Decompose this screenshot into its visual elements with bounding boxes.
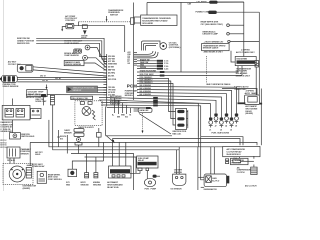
wire code labels [40,76,61,83]
svg-text:SENSOR: SENSOR [21,153,30,155]
alternator field box [226,158,249,164]
dashed indicator wire [206,56,208,83]
wire injector feed 3 [137,94,221,118]
svg-text:S12: S12 [60,138,63,140]
svg-text:(OPTIONAL): (OPTIONAL) [169,46,181,49]
wire F1 to bus [218,1,244,3]
svg-text:CKT A-14: CKT A-14 [7,159,15,162]
svg-text:GROUND: GROUND [93,184,102,186]
PCM connector C2 column [133,3,135,101]
PCM module label [125,90,138,98]
C2 connector block rows [137,58,168,62]
TCM box [141,15,177,26]
TPS stack label [64,130,72,134]
IAT sensor label [64,52,79,57]
ASD dark bar box [109,166,132,178]
svg-text:CKT BRKR: CKT BRKR [197,2,208,4]
svg-text:(RENIX): (RENIX) [245,113,253,115]
C1 pin stubs [103,57,106,95]
mid bus wire [106,135,173,137]
CMP label [21,148,32,156]
ignition module box [37,171,46,183]
wire ECT to PCM [90,48,107,65]
IAC coil zigzag [92,110,96,120]
O2 sensor label [174,170,183,174]
A/C clutch label [237,166,251,174]
svg-text:GROUND: GROUND [81,184,90,186]
fuel pump relay box [137,156,158,171]
svg-text:NOISE CAP: NOISE CAP [35,100,47,103]
IAC motor [82,107,91,116]
svg-text:CKT 57: CKT 57 [40,76,46,78]
CMP wires into distributor [10,158,14,164]
svg-text:SENSE: SENSE [140,67,147,69]
distributor [9,166,25,182]
injector 3 [220,118,224,132]
wire C2 row to kickdown [137,66,238,73]
coil rail box [176,108,188,129]
relay note top [27,163,46,168]
4speed note [236,49,255,53]
svg-text:SPD CTRL VENT: SPD CTRL VENT [140,74,155,76]
svg-text:KICKDOWN SWITCH AND: KICKDOWN SWITCH AND [142,20,168,23]
long bus 1 [113,139,241,146]
svg-text:RAIL 4.0L: RAIL 4.0L [172,133,182,136]
stub labels [112,115,132,119]
svg-text:INJ 6 DRIVER: INJ 6 DRIVER [140,85,152,87]
svg-text:CLUTCH: CLUTCH [237,172,245,174]
wire C2 row to relay 2 [137,66,242,77]
wire TCM to relay [231,51,235,62]
generator bottom wire [201,186,204,188]
svg-text:A/C CLUTCH: A/C CLUTCH [245,185,257,188]
splice tick [57,130,67,147]
svg-text:GND: GND [66,184,71,186]
wire injector feed 1 [107,98,211,117]
svg-text:PARK SW: PARK SW [140,61,148,64]
svg-text:KICKDOWN: KICKDOWN [237,58,248,60]
svg-text:CONTROL: CONTROL [65,20,76,22]
wire PCM row to left bus 1 [107,100,199,147]
svg-text:SENSOR: SENSOR [64,132,72,134]
wire injector feed 6 [137,85,237,114]
wire coolant to PCM [47,94,106,96]
C2 pin ticks [134,53,137,66]
wire fp relay left [130,171,140,174]
svg-text:SHIFT INDICATOR CABLE: SHIFT INDICATOR CABLE [206,83,231,86]
svg-text:J4: J4 [225,125,227,127]
svg-text:J5: J5 [230,129,232,131]
svg-text:A/C REQ: A/C REQ [108,72,116,75]
svg-text:J1: J1 [209,129,211,131]
svg-text:G3: G3 [128,63,130,65]
svg-text:AUTO TRANS ONLY: AUTO TRANS ONLY [236,51,255,54]
wire bus down left 2 [53,105,180,150]
generator feed wires [211,147,215,174]
svg-text:RELAY 91-95: RELAY 91-95 [107,186,118,189]
svg-text:SPEED SENSOR: SPEED SENSOR [3,86,19,88]
WOT switch connector [17,64,33,72]
bus vertical B2 [258,12,260,95]
IAC pins [80,102,92,105]
dark junction blob [41,94,46,105]
svg-text:FUEL INJECTORS: FUEL INJECTORS [212,133,230,135]
svg-text:CKT 18: CKT 18 [0,147,6,149]
aux connector box [31,109,42,119]
svg-text:MAP SIG: MAP SIG [108,69,116,72]
svg-text:INJ 4 DRIVER: INJ 4 DRIVER [140,91,152,93]
enclosure top wire [222,89,257,96]
svg-text:TRANSMISSION OVERDRIVE: TRANSMISSION OVERDRIVE [142,17,171,20]
wires into O2 [177,147,180,174]
CMP sensor [7,147,20,158]
loop component label [169,42,181,49]
fuel pump [144,171,156,191]
transmission switch label [108,9,124,16]
left module label [26,95,45,99]
wires into ASD bar [113,139,126,167]
wire IAT to PCM [87,58,106,67]
ground junction box [68,169,77,176]
splice component S1 [74,49,82,53]
bottom bus 4 [85,157,137,173]
injector 6 [235,114,239,128]
wire row2 to bus [229,33,244,35]
svg-text:PRESS SENSOR: PRESS SENSOR [65,64,81,66]
svg-text:PCM: PCM [127,83,137,88]
top bus wire [147,1,244,3]
svg-text:FUEL PUMP: FUEL PUMP [110,103,121,105]
label arrow [106,16,108,22]
svg-text:SPD CTRL: SPD CTRL [108,79,116,81]
fuse F1 [197,1,218,4]
kickdown relay [235,57,258,68]
stub verticals with labels [115,98,131,115]
TCM feed vertical [146,3,148,16]
wire injector feed 4 [137,91,227,114]
harness connector [0,75,17,82]
wire C1 bottom with arrow [106,107,115,144]
svg-text:DOWN RELAY: DOWN RELAY [32,165,45,168]
inline splice dark [153,175,160,178]
wire label to diag box [12,99,14,106]
wire ground riser [72,161,103,169]
ground G1 [81,154,90,187]
dashed wire with arrow [142,113,144,133]
ASD bar label [107,181,123,189]
wire bus down left 1 [49,120,223,147]
A/C clutch relay K1 [66,23,74,28]
distributor label [23,186,37,190]
wire coil feed 3 [137,82,176,125]
A/C clutch relay label [65,15,78,22]
IAT sensor [83,55,88,60]
RWAL label [48,173,63,181]
riser 2 to generator [201,137,204,180]
svg-text:CKT 63: CKT 63 [42,80,48,82]
ECT sensor label [64,40,83,45]
scan edge artifact left [3,0,5,191]
svg-text:CONT MODULE: CONT MODULE [48,179,63,181]
wire to distributor [29,142,31,166]
wire coil feed 2 [137,79,176,118]
wires TPS to PCM [98,88,107,93]
right bus vertical B3 [260,89,262,146]
wire box to connector [12,120,14,133]
wire relay to ASD [255,67,257,95]
inline connector with arrow [81,25,88,40]
wire A/C relay to dashed run [74,26,125,52]
PCM aux box [134,108,152,112]
svg-text:SWITCH FEED: SWITCH FEED [21,136,35,138]
bottom bus 3 [71,154,134,191]
TPS sensor bar [67,86,98,93]
svg-text:BRAKE SW: BRAKE SW [140,58,150,61]
svg-text:(RENIX): (RENIX) [23,188,31,190]
ground G2 [93,157,102,186]
svg-text:IAT SIG: IAT SIG [108,66,115,69]
svg-text:4WD MODELS ONLY: 4WD MODELS ONLY [204,52,224,54]
wire TPS stack down [78,145,80,154]
ASD relay box [238,89,263,105]
wire coil feed 1 [137,77,176,112]
ground junction label [66,182,71,186]
data link label [21,134,35,138]
svg-text:SNSR GND: SNSR GND [108,64,118,66]
svg-text:SENSOR SIG: SENSOR SIG [17,43,30,45]
injector 4 [225,114,229,128]
svg-text:PUMP: PUMP [151,188,157,190]
left text column bottom [0,140,6,149]
svg-text:CKT (SEE BRKR CONT): CKT (SEE BRKR CONT) [201,24,224,26]
TCM pin stubs [134,17,141,23]
svg-text:B+ FLD: B+ FLD [212,180,219,182]
loop connection wires [137,51,158,58]
svg-text:FEED: FEED [35,154,41,156]
injector 2 [214,114,218,128]
svg-text:FUEL: FUEL [145,188,150,190]
coolant sw box [27,90,48,97]
C2 pin labels [128,51,131,65]
IAC label box [71,96,93,100]
field splice box [233,158,254,163]
capacitor label [35,99,47,103]
svg-text:O2 SENSOR: O2 SENSOR [171,189,183,191]
right riser to generator [198,147,204,190]
svg-text:SENSOR CABLE: SENSOR CABLE [203,47,219,50]
svg-text:95-98 MODELS: 95-98 MODELS [227,154,242,156]
MAP sensor label box [64,61,84,66]
inline connector small [97,128,102,147]
svg-text:C 4.5: C 4.5 [164,68,168,70]
svg-text:J3: J3 [220,129,222,131]
wire box down [239,157,241,159]
stub wires into PCM lower left [99,98,107,106]
wire row3 to right bus [230,41,259,43]
wire MAP to PCM [84,63,107,70]
svg-text:CKT 60: CKT 60 [55,78,61,80]
diagnostic connector box [2,105,30,120]
TPS connector stack [74,129,84,146]
splice label row 3 [204,40,230,43]
injector 1 [209,118,213,132]
O2 sensor [173,174,186,185]
IAC dashed body [75,101,102,126]
long bus 2 [30,142,257,145]
svg-text:J6: J6 [235,125,237,127]
A/C clutch coil [251,156,257,175]
legend text block [1,121,14,133]
ASD relay label [245,105,257,115]
coil rail label [172,131,187,135]
svg-text:B+: B+ [112,115,114,117]
wire PCM row 5 [107,107,151,109]
wire bundle top left to PCM [36,38,107,61]
dashed wire to TCM [79,21,131,23]
svg-text:TEMP SENSOR: TEMP SENSOR [64,43,79,45]
svg-text:SOLENOID: SOLENOID [142,23,153,25]
wire arrow into coolant box [46,85,48,90]
speed sensor box [202,44,230,54]
svg-text:SENSOR: SENSOR [73,90,82,92]
4speed note 3 [245,90,258,94]
wire F2 to right bus [217,11,259,13]
PCM connector C1 column [106,54,108,107]
injector enclosure [198,120,243,145]
fuse F2 [196,11,217,14]
svg-text:DATA LINK: DATA LINK [140,109,150,112]
generator [204,174,229,187]
C1 pin labels [108,56,118,96]
noise capacitor [50,95,54,105]
bus vertical B1 [243,2,245,57]
harness connector label [3,84,19,88]
svg-text:INJ 5 DRIVER: INJ 5 DRIVER [140,88,152,90]
wire injector feed 5 [137,88,232,118]
WOT switch label [8,61,21,66]
svg-text:MODULE: MODULE [125,95,134,97]
svg-text:A/C SEL: A/C SEL [108,75,115,78]
splice label row 2 [202,30,229,35]
svg-text:FUSIBLE LINK: FUSIBLE LINK [196,11,210,13]
svg-text:RELAY: RELAY [138,159,145,162]
svg-text:FIELD CKT: FIELD CKT [232,163,243,165]
svg-text:INJ 3 DRIVER: INJ 3 DRIVER [140,94,152,96]
wires harness to PCM [17,78,106,83]
svg-text:COIL DRIVER 3: COIL DRIVER 3 [140,82,153,84]
injector 5 [230,118,234,132]
ECT sensor [85,45,90,50]
svg-text:SWITCH: SWITCH [110,14,118,16]
wires WOT to PCM [33,67,107,76]
svg-text:TRANS KICKDOWN: TRANS KICKDOWN [140,69,157,72]
A/C compressor relay box [223,147,260,157]
4speed note 2 [234,86,249,91]
svg-text:SENSOR: SENSOR [174,172,183,174]
pickup coil [26,168,31,179]
speed sensor loop component [142,41,167,51]
diagonal harness wire [139,114,171,135]
speed sensor labels left top [17,38,35,45]
kickdown relay label [236,67,252,77]
distributor dashed box [3,164,33,185]
dashed wire down to PCM [131,18,135,25]
small relay note [35,151,43,156]
wire row1 to bus [229,24,244,26]
svg-text:+ BODY WIRING CKT: + BODY WIRING CKT [204,41,225,43]
data link connector [10,133,21,139]
wire injector feed 2 [107,96,216,114]
svg-text:IDLE SPEED CTRL: IDLE SPEED CTRL [72,98,89,100]
svg-text:TEMP SENSOR: TEMP SENSOR [64,55,79,57]
A/C relay lead arrow [61,27,66,32]
svg-text:CIRCUITS LAMP: CIRCUITS LAMP [202,33,218,36]
wire left riser [66,135,68,154]
svg-text:J2: J2 [215,125,217,127]
wire TCM right vertical [180,3,182,73]
splice label row 1 [201,21,230,27]
svg-text:GENERATOR: GENERATOR [204,188,217,191]
wire PCM row to left bus 2 [107,103,201,136]
